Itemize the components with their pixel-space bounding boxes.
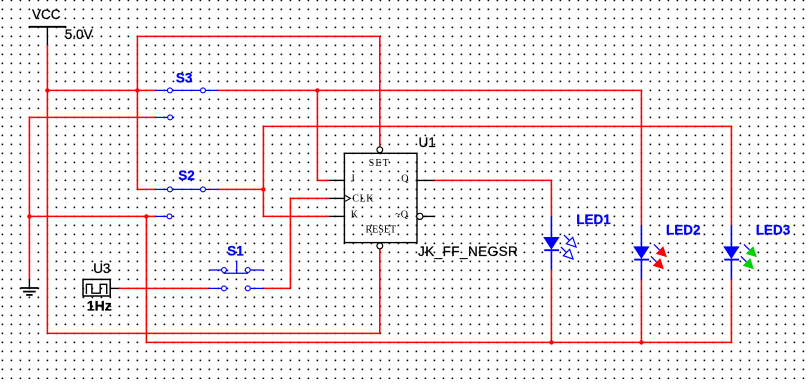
wire RESET bubble down: [379, 249, 381, 334]
wire VCC bottom rail to RESET: [47, 332, 379, 334]
ground symbol: [28, 279, 30, 288]
LED LED2 emission arrow 2: [651, 256, 657, 262]
wire into CLK pin: [290, 197, 328, 199]
junction S2 output node: [261, 187, 265, 191]
wire top horizontal to SET: [137, 35, 379, 37]
wire VCC to S3 pole: [47, 89, 155, 91]
S1 actuator: [236, 261, 238, 273]
wire Q output: [434, 179, 551, 181]
wire S3 node down to J: [316, 90, 318, 180]
wire down to LED2 anode: [640, 90, 642, 225]
junction ground branch: [144, 214, 148, 218]
LED LED3 triangle: [723, 246, 739, 259]
svg-text:RESET: RESET: [366, 224, 397, 235]
LED LED1 emission arrow 1: [564, 235, 570, 241]
svg-text:CLK: CLK: [352, 194, 374, 205]
wire S1 to CLK riser: [264, 287, 291, 289]
LED LED3 emission arrow 2: [741, 256, 747, 262]
wire ground to S3 lower throw: [29, 116, 155, 118]
wire U3 output to S1: [119, 287, 209, 289]
LED LED2 triangle: [633, 246, 649, 259]
wire S2 output: [218, 188, 263, 190]
LED LED3 cathode bar: [724, 259, 739, 261]
svg-text:S3: S3: [176, 71, 193, 86]
U1 ~Q bubble: [417, 213, 423, 219]
LED LED2 emission arrow 1: [654, 244, 660, 250]
U1 pin CLK stub: [329, 197, 345, 199]
LED LED2 cathode stem: [640, 261, 642, 279]
wire ground bottom rail: [146, 341, 731, 343]
junction ground rail / S2 throw line: [27, 214, 31, 218]
U1 SET bubble: [377, 147, 383, 153]
switch S1 lower contacts: [209, 287, 222, 289]
U3 square-wave glyph: [86, 284, 108, 293]
LED LED1 cathode stem: [550, 251, 552, 269]
U1 RESET bubble: [377, 243, 383, 249]
wire S3 output to LED2: [218, 89, 641, 91]
U1 pin K stub: [329, 215, 345, 217]
wire LED1 cathode down: [550, 270, 552, 343]
wire LED2 cathode down: [640, 279, 642, 342]
wire VCC to S2 pole: [137, 188, 155, 190]
U1 pin ~Q stub: [423, 215, 434, 217]
LED LED1 emission arrow 2: [561, 247, 567, 253]
wire S2 node vertical: [262, 126, 264, 216]
LED LED3 emission arrow 1: [744, 244, 750, 250]
junction S3 output / J branch: [315, 88, 319, 92]
wire VCC branch vertical: [136, 36, 138, 189]
svg-text:U3: U3: [93, 261, 110, 276]
LED LED2 anode stem: [640, 226, 642, 247]
switch S3 lower throw contact: [156, 116, 168, 118]
wire down to LED3 anode: [730, 126, 732, 225]
wire S2 node to LED3: [263, 125, 731, 127]
svg-text:S2: S2: [178, 168, 195, 183]
switch S2: [155, 188, 218, 190]
svg-text:LED1: LED1: [576, 212, 611, 227]
LED LED1 triangle: [543, 237, 559, 250]
svg-text:S1: S1: [227, 244, 244, 259]
wire ground to S2 lower throw: [29, 215, 155, 217]
svg-text:VCC: VCC: [32, 7, 61, 22]
power VCC symbol: [29, 26, 67, 28]
junction LED2 / bottom rail: [639, 340, 643, 344]
junction VCC rail / S3 feed: [45, 88, 49, 92]
svg-text:LED3: LED3: [756, 223, 791, 238]
svg-text:SET: SET: [369, 158, 390, 169]
wire down to LED1 anode: [550, 180, 552, 216]
svg-text:U1: U1: [419, 135, 436, 150]
svg-text:LED2: LED2: [666, 223, 701, 238]
switch S3: [155, 89, 218, 91]
wire into J pin: [317, 179, 328, 181]
LED LED3 anode stem: [730, 226, 732, 247]
wire down to SET bubble: [379, 36, 381, 146]
junction VCC branch / S3 feed: [135, 88, 139, 92]
svg-text:K: K: [351, 210, 359, 221]
wire LED3 cathode down: [730, 279, 732, 342]
wire ground branch down: [145, 216, 147, 342]
U1 CLK edge-trigger chevron: [344, 195, 350, 202]
wire into K pin: [263, 215, 328, 217]
wire CLK riser vertical: [289, 198, 291, 288]
svg-text:Q: Q: [401, 173, 409, 184]
JK flip-flop U1 body: [344, 153, 417, 242]
LED LED1 anode stem: [550, 216, 552, 237]
svg-text:~Q: ~Q: [395, 210, 408, 221]
switch S1 pushbutton upper contacts: [210, 269, 222, 271]
U3 output pin stub: [110, 287, 119, 289]
svg-text:JK_FF_NEGSR: JK_FF_NEGSR: [418, 244, 518, 259]
svg-text:5.0V: 5.0V: [65, 27, 93, 42]
clock source U3 box: [83, 279, 110, 296]
junction LED1 / bottom rail: [549, 340, 553, 344]
svg-text:J: J: [351, 173, 355, 184]
U1 pin Q stub: [417, 179, 434, 181]
wire VCC vertical rail: [46, 45, 48, 333]
switch S2 lower throw contact: [155, 215, 167, 217]
wire ground vertical rail: [28, 117, 30, 279]
svg-text:1Hz: 1Hz: [87, 298, 112, 314]
LED LED2 cathode bar: [634, 259, 649, 261]
U1 pin J stub: [329, 179, 345, 181]
LED LED3 cathode stem: [730, 261, 732, 279]
LED LED1 cathode bar: [544, 249, 559, 251]
